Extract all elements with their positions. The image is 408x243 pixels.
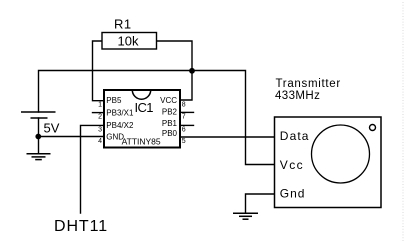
svg-text:8: 8 <box>182 101 186 108</box>
wire IC1 pin 6 stub <box>180 124 194 126</box>
transmitter module body <box>275 117 382 208</box>
edge artifact column (faint) <box>402 2 404 241</box>
svg-text:ATTINY85: ATTINY85 <box>122 137 161 147</box>
svg-text:R1: R1 <box>114 17 132 32</box>
ground symbol at battery <box>27 154 51 160</box>
svg-text:PB4/X2: PB4/X2 <box>106 121 134 130</box>
svg-text:433MHz: 433MHz <box>275 90 320 102</box>
transmitter coil circle <box>312 125 370 183</box>
svg-text:Data: Data <box>280 129 310 143</box>
svg-text:Transmitter: Transmitter <box>276 78 341 90</box>
svg-text:5: 5 <box>182 138 186 145</box>
svg-text:PB2: PB2 <box>162 108 178 117</box>
svg-text:1: 1 <box>98 101 102 108</box>
junction battery minus / GND net <box>35 134 41 140</box>
svg-text:2: 2 <box>98 114 102 121</box>
svg-text:PB5: PB5 <box>106 96 122 105</box>
svg-text:3: 3 <box>98 126 102 133</box>
transmitter antenna hole <box>370 125 376 131</box>
svg-text:VCC: VCC <box>160 96 177 105</box>
wire transmitter Gnd to ground <box>246 194 275 213</box>
svg-text:Vcc: Vcc <box>280 158 304 172</box>
battery BAT1 5V plates <box>21 112 56 118</box>
svg-text:PB0: PB0 <box>162 129 178 138</box>
svg-text:PB1: PB1 <box>162 119 178 128</box>
wire IC1 pin 2 stub <box>93 112 104 114</box>
svg-text:4: 4 <box>98 138 102 145</box>
svg-text:7: 7 <box>182 114 186 121</box>
wire battery minus to IC1 pin 4 GND <box>39 136 104 138</box>
wire VCC rail: battery + up and across to transmitter Vcc riser <box>39 71 275 165</box>
svg-text:Gnd: Gnd <box>280 187 306 201</box>
wire battery minus down to ground <box>38 118 40 154</box>
svg-text:5V: 5V <box>44 120 60 135</box>
wire IC1 pin 3 to DHT11 data <box>81 125 104 213</box>
svg-text:DHT11: DHT11 <box>54 218 108 235</box>
ground symbol at transmitter <box>233 213 258 219</box>
wire IC1 pin 7 stub <box>180 111 194 113</box>
svg-text:10k: 10k <box>118 34 139 49</box>
resistor R1 body <box>102 33 157 50</box>
svg-text:6: 6 <box>182 126 186 133</box>
IC1 notch <box>132 90 150 99</box>
op-amp n/a: IC U1 ATTINY85 body <box>104 90 180 148</box>
junction VCC node at rail and pin 8 riser <box>189 68 195 74</box>
wire IC1 pin 5 PB0 to transmitter Data <box>180 136 275 138</box>
wire resistor R1 right lead down to VCC node <box>156 41 192 100</box>
svg-text:GND: GND <box>106 132 124 141</box>
svg-text:IC1: IC1 <box>135 100 154 115</box>
wire resistor R1 left lead down to IC1 pin 1 <box>93 41 104 101</box>
svg-text:PB3/X1: PB3/X1 <box>106 109 134 118</box>
